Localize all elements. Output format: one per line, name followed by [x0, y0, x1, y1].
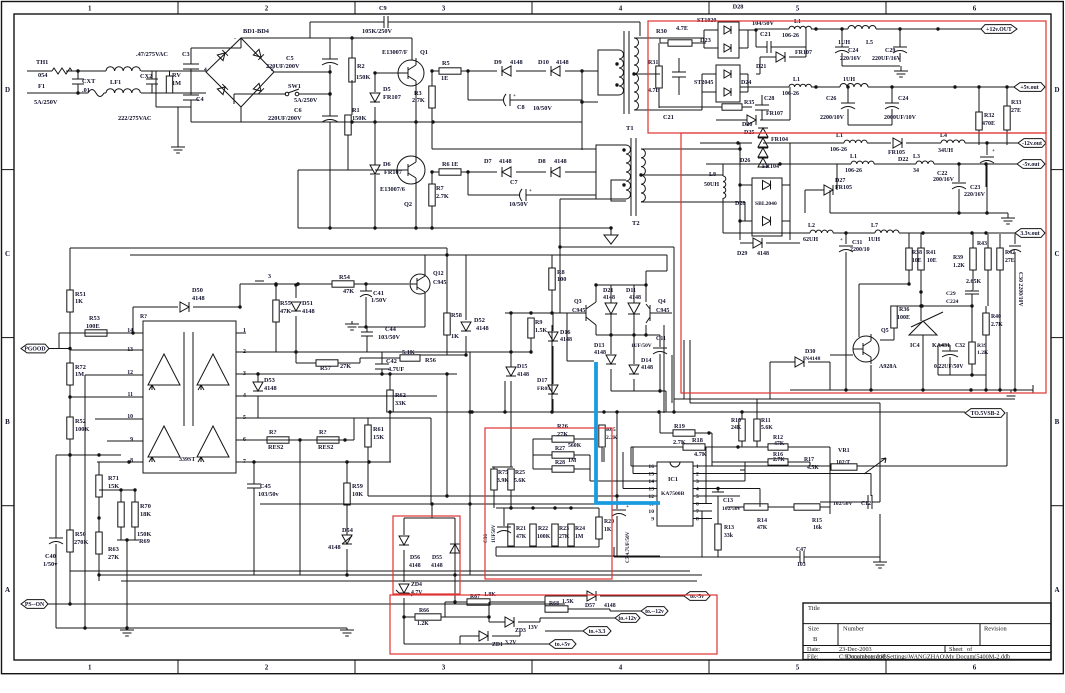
svg-text:BD1-BD4: BD1-BD4 [243, 28, 270, 35]
svg-text:R33: R33 [1011, 100, 1021, 106]
svg-text:15K: 15K [373, 434, 384, 441]
svg-text:R21: R21 [516, 526, 526, 532]
svg-text:4148: 4148 [757, 251, 769, 257]
svg-text:SW1: SW1 [288, 83, 301, 90]
svg-text:-5v.out: -5v.out [1023, 162, 1040, 168]
svg-text:C9: C9 [379, 5, 387, 12]
svg-text:D17: D17 [537, 378, 547, 384]
svg-text:150K: 150K [137, 531, 151, 538]
svg-text:R32: R32 [984, 113, 994, 119]
svg-text:FR05: FR05 [537, 386, 550, 392]
svg-text:C28: C28 [764, 96, 774, 102]
svg-text:3.3v.out: 3.3v.out [1020, 231, 1039, 237]
svg-text:FR107: FR107 [384, 169, 402, 176]
svg-text:D: D [1054, 86, 1059, 94]
svg-text:560K: 560K [568, 443, 582, 449]
svg-text:105K/250V: 105K/250V [362, 28, 393, 35]
svg-text:150K: 150K [356, 74, 370, 81]
svg-text:A: A [1054, 586, 1059, 594]
svg-text:10K: 10K [352, 491, 363, 498]
svg-text:R2: R2 [357, 63, 365, 70]
svg-text:.01: .01 [82, 87, 90, 94]
svg-text:C5: C5 [286, 55, 294, 62]
svg-text:D29: D29 [737, 251, 747, 257]
svg-text:R39: R39 [977, 343, 987, 349]
svg-text:+: + [529, 189, 532, 194]
svg-text:1M: 1M [568, 458, 577, 464]
svg-text:C224: C224 [946, 299, 959, 305]
svg-text:KA431: KA431 [932, 343, 950, 349]
svg-text:to.--12v: to.--12v [645, 609, 664, 615]
svg-text:100E: 100E [86, 323, 100, 330]
svg-text:Q1: Q1 [420, 49, 428, 56]
svg-text:47K: 47K [280, 308, 291, 315]
svg-text:Q4: Q4 [658, 299, 666, 305]
svg-text:9: 9 [651, 517, 654, 523]
svg-text:C7 4.7UF/50V: C7 4.7UF/50V [625, 531, 631, 563]
svg-text:4148: 4148 [476, 325, 489, 332]
svg-text:D27: D27 [835, 178, 845, 184]
svg-text:103/50V: 103/50V [378, 334, 400, 341]
svg-text:FR104: FR104 [771, 137, 788, 143]
svg-text:C24: C24 [898, 96, 908, 102]
svg-text:27E: 27E [1011, 108, 1021, 114]
svg-text:C36: C36 [483, 534, 489, 543]
svg-text:D56: D56 [410, 555, 420, 561]
svg-text:27K: 27K [108, 554, 119, 561]
svg-text:7: 7 [696, 509, 699, 515]
svg-text:15: 15 [648, 472, 654, 478]
svg-text:D: D [5, 86, 10, 94]
svg-text:R28: R28 [555, 460, 565, 466]
svg-text:47K: 47K [774, 441, 785, 447]
svg-text:CX2: CX2 [140, 73, 152, 80]
svg-text:IN4148: IN4148 [803, 356, 821, 362]
svg-text:+: + [840, 238, 843, 243]
svg-text:R51: R51 [75, 291, 86, 298]
svg-text:L5: L5 [866, 40, 873, 46]
svg-text:C40: C40 [45, 553, 56, 560]
svg-text:5A/250V: 5A/250V [34, 99, 58, 106]
svg-text:IC1: IC1 [668, 476, 678, 483]
svg-text:to.+3.3: to.+3.3 [589, 629, 606, 635]
svg-text:R25: R25 [515, 470, 525, 476]
svg-text:FR105: FR105 [835, 185, 852, 191]
svg-text:R58: R58 [451, 312, 462, 319]
svg-text:KA7500B: KA7500B [661, 491, 685, 497]
svg-text:R57: R57 [320, 365, 331, 372]
svg-text:R36: R36 [899, 307, 909, 313]
svg-text:8: 8 [696, 517, 699, 523]
svg-text:ZD3: ZD3 [515, 628, 526, 634]
svg-text:4.7UF: 4.7UF [388, 366, 404, 373]
svg-text:10E: 10E [927, 258, 937, 264]
svg-text:E13007/F: E13007/F [382, 49, 408, 56]
svg-text:47K: 47K [757, 525, 768, 531]
svg-text:220/16V: 220/16V [964, 192, 986, 198]
svg-text:6: 6 [973, 664, 977, 672]
svg-text:4148: 4148 [264, 385, 277, 392]
svg-text:4148: 4148 [629, 295, 641, 301]
svg-text:R3: R3 [414, 90, 422, 97]
svg-text:103: 103 [797, 562, 806, 568]
svg-text:C7: C7 [510, 179, 518, 186]
svg-text:4148: 4148 [192, 295, 205, 302]
svg-text:L1: L1 [850, 154, 857, 160]
svg-text:C23: C23 [970, 185, 980, 191]
svg-text:3: 3 [268, 274, 271, 280]
svg-text:Title: Title [808, 605, 820, 612]
svg-text:IC4: IC4 [910, 343, 920, 349]
svg-text:Q5: Q5 [881, 328, 889, 334]
svg-text:R69: R69 [139, 538, 150, 545]
svg-text:1E: 1E [441, 75, 448, 82]
svg-text:1.5K: 1.5K [562, 599, 574, 605]
svg-text:SBL2040: SBL2040 [755, 201, 777, 207]
svg-text:220UF/200V: 220UF/200V [268, 115, 302, 122]
svg-text:16k: 16k [813, 525, 823, 531]
svg-text:Revision: Revision [984, 626, 1008, 633]
svg-text:D8: D8 [538, 158, 546, 165]
svg-text:R26: R26 [557, 423, 568, 430]
svg-text:R30: R30 [656, 28, 667, 35]
svg-text:FR104: FR104 [762, 164, 779, 170]
svg-text:D50: D50 [192, 287, 203, 294]
svg-text:R59: R59 [352, 483, 363, 490]
svg-text:R43: R43 [977, 241, 987, 247]
svg-text:C41: C41 [373, 290, 384, 297]
svg-text:34UH: 34UH [938, 148, 953, 154]
svg-text:A928A: A928A [879, 364, 897, 370]
svg-text:C30 2200/10V: C30 2200/10V [1017, 272, 1023, 307]
svg-text:4: 4 [619, 5, 623, 13]
svg-text:Number: Number [843, 626, 865, 633]
svg-text:L3: L3 [913, 154, 920, 160]
svg-text:1K: 1K [75, 298, 83, 305]
svg-text:L8: L8 [709, 172, 716, 178]
svg-text:-12v.out: -12v.out [1022, 141, 1042, 147]
svg-text:3.2V: 3.2V [505, 640, 517, 646]
svg-text:106-26: 106-26 [830, 147, 847, 153]
svg-text:R11: R11 [761, 418, 771, 424]
svg-text:D54: D54 [342, 527, 354, 534]
svg-text:R14: R14 [757, 518, 767, 524]
svg-text:D14: D14 [641, 358, 651, 364]
svg-text:24K: 24K [731, 425, 742, 431]
svg-text:1: 1 [88, 5, 92, 13]
svg-text:220/16V: 220/16V [840, 56, 862, 62]
svg-text:5.1K: 5.1K [402, 349, 415, 356]
svg-text:C44: C44 [385, 326, 397, 333]
svg-text:D6: D6 [383, 161, 391, 168]
svg-text:14: 14 [648, 479, 654, 485]
svg-text:4148: 4148 [499, 158, 512, 165]
svg-text:R61: R61 [373, 426, 384, 433]
svg-text:C: C [1054, 250, 1059, 258]
svg-text:R68: R68 [549, 601, 559, 607]
svg-text:1UH: 1UH [843, 77, 855, 83]
svg-text:FR107: FR107 [383, 94, 401, 101]
svg-text:C31: C31 [852, 240, 862, 246]
svg-text:2: 2 [696, 472, 699, 478]
svg-text:1M: 1M [575, 534, 584, 540]
svg-text:5.6K: 5.6K [514, 478, 526, 484]
svg-text:C: C [5, 250, 10, 258]
svg-text:4148: 4148 [328, 544, 341, 551]
svg-text:B: B [1055, 418, 1060, 426]
svg-text:103/50v: 103/50v [258, 491, 279, 498]
svg-text:RES2: RES2 [268, 444, 283, 451]
svg-text:10: 10 [648, 509, 654, 515]
svg-text:220UF/16V: 220UF/16V [872, 56, 902, 62]
svg-text:47K: 47K [343, 288, 354, 295]
svg-text:FR107: FR107 [766, 111, 783, 117]
svg-text:R15: R15 [812, 518, 822, 524]
svg-text:FR105: FR105 [888, 150, 905, 156]
svg-text:054: 054 [38, 72, 48, 79]
svg-text:TH1: TH1 [36, 59, 48, 66]
svg-text:4148: 4148 [431, 563, 443, 569]
svg-text:2.7K: 2.7K [436, 193, 449, 200]
svg-text:D24: D24 [741, 80, 751, 86]
svg-text:+: + [992, 149, 995, 154]
svg-text:4148: 4148 [409, 563, 421, 569]
svg-text:+5v.out: +5v.out [1020, 85, 1038, 91]
svg-text:9: 9 [130, 437, 133, 443]
svg-text:R54: R54 [339, 274, 351, 281]
svg-text:1K: 1K [451, 333, 459, 340]
svg-text:C13: C13 [723, 498, 733, 504]
svg-text:4148: 4148 [560, 337, 572, 343]
svg-text:R7: R7 [436, 185, 444, 192]
svg-text:1.2K: 1.2K [953, 263, 965, 269]
svg-text:R13: R13 [724, 525, 734, 531]
svg-text:R?: R? [269, 429, 277, 436]
svg-text:200/16V: 200/16V [933, 177, 955, 183]
svg-text:C945: C945 [433, 280, 446, 286]
svg-text:ST2045: ST2045 [694, 80, 713, 86]
svg-text:VR1: VR1 [838, 448, 850, 454]
svg-text:C42: C42 [386, 358, 397, 365]
svg-text:R39: R39 [953, 255, 963, 261]
svg-text:D13: D13 [594, 343, 604, 349]
svg-text:R53: R53 [89, 315, 100, 322]
svg-text:PGOOD: PGOOD [24, 347, 45, 353]
svg-text:R41: R41 [926, 250, 936, 256]
svg-text:Sheet: Sheet [949, 646, 963, 653]
svg-text:106-26: 106-26 [782, 33, 799, 39]
svg-text:1/50V: 1/50V [371, 297, 387, 304]
svg-text:R35: R35 [744, 100, 754, 106]
svg-text:33K: 33K [395, 400, 406, 407]
svg-text:R55: R55 [280, 300, 291, 307]
svg-text:Q2: Q2 [404, 201, 412, 208]
svg-text:4148: 4148 [604, 603, 616, 609]
svg-text:4.7E: 4.7E [676, 25, 688, 32]
svg-text:D57: D57 [585, 603, 595, 609]
svg-text:R50: R50 [75, 531, 86, 538]
svg-text:3: 3 [696, 479, 699, 485]
svg-text:Date:: Date: [807, 646, 821, 653]
svg-text:1M: 1M [172, 80, 181, 87]
svg-text:R27: R27 [555, 446, 565, 452]
svg-text:R31: R31 [648, 60, 658, 66]
svg-text:4148: 4148 [556, 59, 569, 66]
svg-text:D55: D55 [432, 555, 442, 561]
svg-text:C29: C29 [885, 48, 895, 54]
svg-text:D51: D51 [302, 300, 313, 307]
svg-text:339ST: 339ST [179, 457, 195, 463]
svg-text:.47/275VAC: .47/275VAC [136, 51, 168, 58]
svg-text:47K: 47K [516, 534, 527, 540]
svg-text:R?: R? [140, 314, 147, 320]
svg-text:R9: R9 [535, 320, 542, 326]
svg-text:6: 6 [973, 5, 977, 13]
svg-text:D16: D16 [560, 330, 570, 336]
svg-text:to.+12v: to.+12v [618, 616, 636, 622]
svg-text:4148: 4148 [603, 295, 615, 301]
svg-text:R70: R70 [140, 503, 151, 510]
svg-text:ZD1: ZD1 [492, 642, 503, 648]
svg-text:4.7E: 4.7E [648, 88, 660, 94]
svg-text:5: 5 [796, 664, 800, 672]
svg-text:16: 16 [648, 464, 654, 470]
svg-text:R40: R40 [991, 314, 1001, 320]
svg-text:L7: L7 [871, 223, 878, 229]
svg-text:4: 4 [204, 67, 207, 73]
svg-text:100K: 100K [75, 426, 89, 433]
svg-text:100: 100 [557, 276, 566, 283]
svg-text:1M: 1M [75, 371, 84, 378]
svg-text:R75: R75 [498, 470, 508, 476]
svg-text:3: 3 [442, 664, 446, 672]
svg-text:23-Dec-2003: 23-Dec-2003 [839, 646, 872, 653]
svg-text:T1: T1 [626, 125, 634, 132]
svg-text:470E: 470E [982, 121, 995, 127]
svg-text:R63: R63 [108, 546, 119, 553]
svg-text:C32: C32 [955, 343, 965, 349]
svg-text:4.7K: 4.7K [694, 451, 707, 458]
svg-text:2.7K: 2.7K [773, 457, 785, 463]
svg-text:1UF50V: 1UF50V [491, 524, 497, 543]
svg-text:D28: D28 [733, 4, 744, 11]
svg-text:106-26: 106-26 [845, 168, 862, 174]
svg-text:E:\mainboard\JB\: E:\mainboard\JB\ [845, 653, 889, 660]
svg-text:100K: 100K [537, 534, 551, 540]
svg-text:2.65K: 2.65K [966, 279, 982, 285]
svg-text:R8: R8 [557, 269, 565, 276]
svg-text:A: A [5, 586, 10, 594]
svg-text:R5: R5 [442, 60, 450, 67]
svg-text:C24: C24 [848, 48, 858, 54]
svg-text:PS--ON: PS--ON [25, 602, 45, 608]
svg-text:C945: C945 [572, 308, 585, 314]
svg-text:C47: C47 [796, 547, 806, 553]
svg-text:R18: R18 [692, 437, 703, 444]
svg-text:10/50V: 10/50V [533, 105, 552, 112]
svg-text:D30: D30 [805, 349, 815, 355]
svg-text:3: 3 [442, 5, 446, 13]
svg-text:D26: D26 [740, 158, 750, 164]
svg-text:270K: 270K [74, 539, 88, 546]
svg-text:18K: 18K [140, 511, 151, 518]
svg-text:D20: D20 [742, 122, 752, 128]
svg-text:to.+5v: to.+5v [555, 642, 570, 648]
svg-text:R6: R6 [442, 161, 450, 168]
svg-text:2: 2 [265, 664, 269, 672]
svg-text:-: - [234, 36, 236, 42]
svg-text:R71: R71 [108, 475, 119, 482]
svg-text:62UH: 62UH [803, 237, 818, 243]
svg-text:2.7K: 2.7K [412, 97, 425, 104]
svg-text:RES2: RES2 [318, 444, 333, 451]
svg-text:D53: D53 [264, 377, 275, 384]
svg-text:Size: Size [808, 626, 819, 633]
svg-text:D22: D22 [898, 157, 908, 163]
svg-text:5: 5 [696, 494, 699, 500]
svg-text:B: B [5, 418, 10, 426]
svg-text:L1: L1 [836, 133, 843, 139]
svg-text:C11: C11 [656, 336, 666, 342]
svg-text:220UF/200V: 220UF/200V [266, 63, 300, 70]
svg-text:R10: R10 [731, 418, 741, 424]
svg-text:10E: 10E [912, 258, 922, 264]
svg-text:Q12: Q12 [433, 271, 444, 277]
svg-text:4148: 4148 [554, 158, 567, 165]
svg-text:RV: RV [172, 72, 181, 79]
svg-text:C21: C21 [760, 31, 771, 38]
svg-text:4: 4 [619, 664, 623, 672]
svg-text:C29: C29 [946, 291, 956, 297]
svg-text:+12v.OUT: +12v.OUT [986, 27, 1012, 33]
svg-text:L4: L4 [940, 133, 947, 139]
svg-text:TO.5VSB-2: TO.5VSB-2 [971, 411, 1000, 417]
svg-text:2: 2 [265, 5, 269, 13]
svg-text:2.7K: 2.7K [673, 439, 686, 446]
svg-text:27E: 27E [1005, 258, 1015, 264]
svg-text:13V: 13V [528, 625, 539, 631]
svg-text:27K: 27K [340, 363, 351, 370]
svg-text:L1: L1 [793, 77, 800, 83]
svg-text:4148: 4148 [510, 59, 523, 66]
svg-text:D23: D23 [700, 37, 711, 44]
svg-text:0.22UF/50V: 0.22UF/50V [934, 364, 964, 370]
svg-text:D10: D10 [538, 59, 549, 66]
svg-text:D9: D9 [494, 59, 502, 66]
svg-text:E13007/6: E13007/6 [380, 186, 405, 193]
svg-text:13: 13 [648, 487, 654, 493]
svg-text:R66: R66 [419, 608, 429, 614]
svg-text:8: 8 [130, 458, 133, 464]
svg-text:R52: R52 [75, 418, 86, 425]
svg-text:1: 1 [696, 464, 699, 470]
svg-text:C8: C8 [517, 104, 525, 111]
svg-text:D11: D11 [626, 288, 636, 294]
svg-text:1UH: 1UH [868, 237, 880, 243]
svg-text:D7: D7 [484, 158, 492, 165]
svg-text:ZD4: ZD4 [411, 582, 422, 588]
svg-text:222/275VAC: 222/275VAC [118, 115, 152, 122]
svg-text:4: 4 [696, 487, 699, 493]
svg-text:Q3: Q3 [574, 299, 582, 305]
svg-text:1.5K: 1.5K [535, 328, 548, 334]
svg-text:C4: C4 [196, 96, 205, 103]
svg-text:150K: 150K [352, 115, 366, 122]
svg-text:2200/10: 2200/10 [850, 247, 870, 253]
svg-text:27K: 27K [557, 431, 568, 438]
svg-text:102/T: 102/T [836, 460, 850, 466]
svg-text:2200/10V: 2200/10V [820, 115, 845, 121]
